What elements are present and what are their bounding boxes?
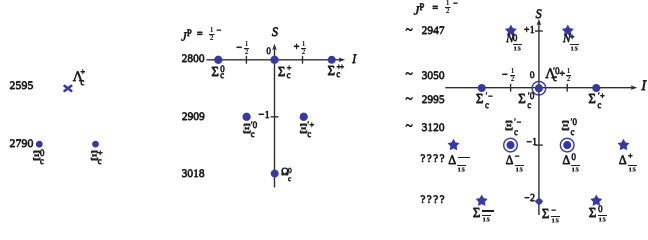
tick label -1 right: [526, 138, 537, 148]
dot Sigma'_c^+: [592, 84, 600, 92]
right panel S-axis: [538, 25, 540, 216]
dot Xi_c(2790)^0: [36, 141, 43, 148]
mass 2595: [0, 79, 33, 91]
axis label S middle: [272, 26, 278, 39]
middle tick +1/2 on I-axis: [302, 56, 304, 64]
label N_15bar^+: [563, 34, 571, 46]
label Sigma'_c^+: [588, 92, 596, 105]
middle S-axis arrowhead: [272, 44, 277, 51]
axis label I right: [641, 79, 646, 94]
label Sigma_15bar^-: [542, 207, 550, 220]
right I-axis arrowhead: [631, 85, 638, 90]
label Delta_15bar^+: [619, 154, 627, 167]
dot Sigma_c(2800)^0: [214, 56, 222, 64]
mass ~2995: [405, 93, 413, 107]
label Xi'_c^0 middle: [243, 122, 252, 135]
label Xi'_c^+ middle: [299, 122, 308, 135]
dot Sigma_c(2800)^+: [270, 56, 278, 64]
middle panel S-axis: [274, 50, 276, 188]
middle I-axis arrowhead: [339, 58, 346, 63]
middle panel I-axis: [207, 59, 341, 61]
star Sigma_15bar^0: [590, 195, 602, 206]
marker X Lambda_c(2595)^+: [65, 86, 72, 91]
star Delta_15bar^+: [618, 139, 630, 150]
label Xi'_c^0 right: [561, 119, 570, 132]
axis label S right: [536, 8, 542, 21]
label Delta_15bar^--: [448, 154, 456, 167]
label Sigma_c^0: [211, 65, 219, 78]
label Sigma_c^++: [327, 64, 335, 77]
label Lambda_c^+: [73, 70, 84, 85]
title right J^P = 1/2^-: [414, 1, 425, 17]
mass 2909: [163, 112, 205, 124]
tick label -1 middle: [258, 110, 270, 121]
dot Sigma'_c^-: [478, 84, 486, 92]
label Sigma_15bar^0: [589, 206, 597, 219]
circled dot Xi'_c^- + Delta_15bar^-: [506, 141, 514, 149]
label Omega_c^0: [281, 168, 289, 179]
label N_15bar^0: [506, 34, 514, 46]
tick label +1 right: [524, 26, 535, 36]
star Delta_15bar^--: [448, 139, 460, 150]
middle tick -1/2 on I-axis: [245, 56, 247, 64]
dot Xi'_c^+ middle: [300, 113, 308, 121]
tick label 0 right: [530, 72, 535, 82]
mass ~3050: [405, 68, 413, 82]
star N_15bar^+: [562, 25, 574, 36]
right tick S=-1: [535, 144, 543, 146]
axis label I middle: [352, 52, 356, 65]
mass ~3120: [405, 120, 413, 134]
label Delta_15bar^-: [506, 154, 514, 167]
label Sigma'_c^0: [518, 92, 526, 105]
mass 2790: [0, 137, 33, 149]
dot Sigma_15bar^- on axis: [536, 198, 542, 204]
right tick +1/2 on I-axis: [566, 84, 568, 92]
mass ???? (Sigma_15bar row): [404, 195, 446, 207]
circled dot Xi'_c^0 + Delta_15bar^0: [563, 141, 571, 149]
right S-axis arrowhead: [537, 19, 542, 26]
mass ~2947: [405, 24, 413, 38]
tick label 0 middle: [266, 47, 271, 56]
star N_15bar^0: [505, 25, 517, 36]
label Xi'_c^- right: [505, 119, 514, 132]
dot Xi_c(2790)^+: [92, 141, 99, 148]
label Sigma_c^+: [278, 65, 286, 78]
right tick -1/2 on I-axis: [510, 84, 512, 92]
middle tick S=-1: [271, 116, 279, 118]
dot Sigma_c(2800)^++: [328, 56, 336, 64]
label Sigma_15bar^--: [473, 206, 481, 219]
right tick S=+1: [535, 30, 543, 32]
label Xi_c^+: [90, 149, 99, 162]
tick label +1/2 middle: [293, 42, 299, 53]
mass 3018: [163, 169, 205, 181]
label Xi_c^0: [32, 149, 41, 162]
mass ???? (Delta_15bar row): [404, 154, 446, 166]
tick label -2 right: [524, 194, 535, 204]
label Lambda'_c^0: [545, 67, 556, 82]
tick label -1/2 right: [502, 70, 508, 81]
dot Omega_c^0: [271, 170, 279, 178]
tick label -1/2 middle: [236, 43, 242, 54]
label Delta_15bar^0: [562, 154, 570, 167]
mass 2800: [163, 54, 205, 66]
title middle J^P = 1/2^-: [181, 27, 192, 43]
star Sigma_15bar^--: [476, 195, 488, 206]
label Sigma'_c^-: [476, 92, 484, 105]
tick label +1/2 right: [559, 69, 565, 80]
dot Xi'_c^0 middle: [242, 113, 250, 121]
circled dot Sigma'_c^0 + Lambda'_c^0: [535, 84, 543, 92]
right panel I-axis: [445, 87, 632, 89]
right tick S=-2: [535, 200, 543, 202]
